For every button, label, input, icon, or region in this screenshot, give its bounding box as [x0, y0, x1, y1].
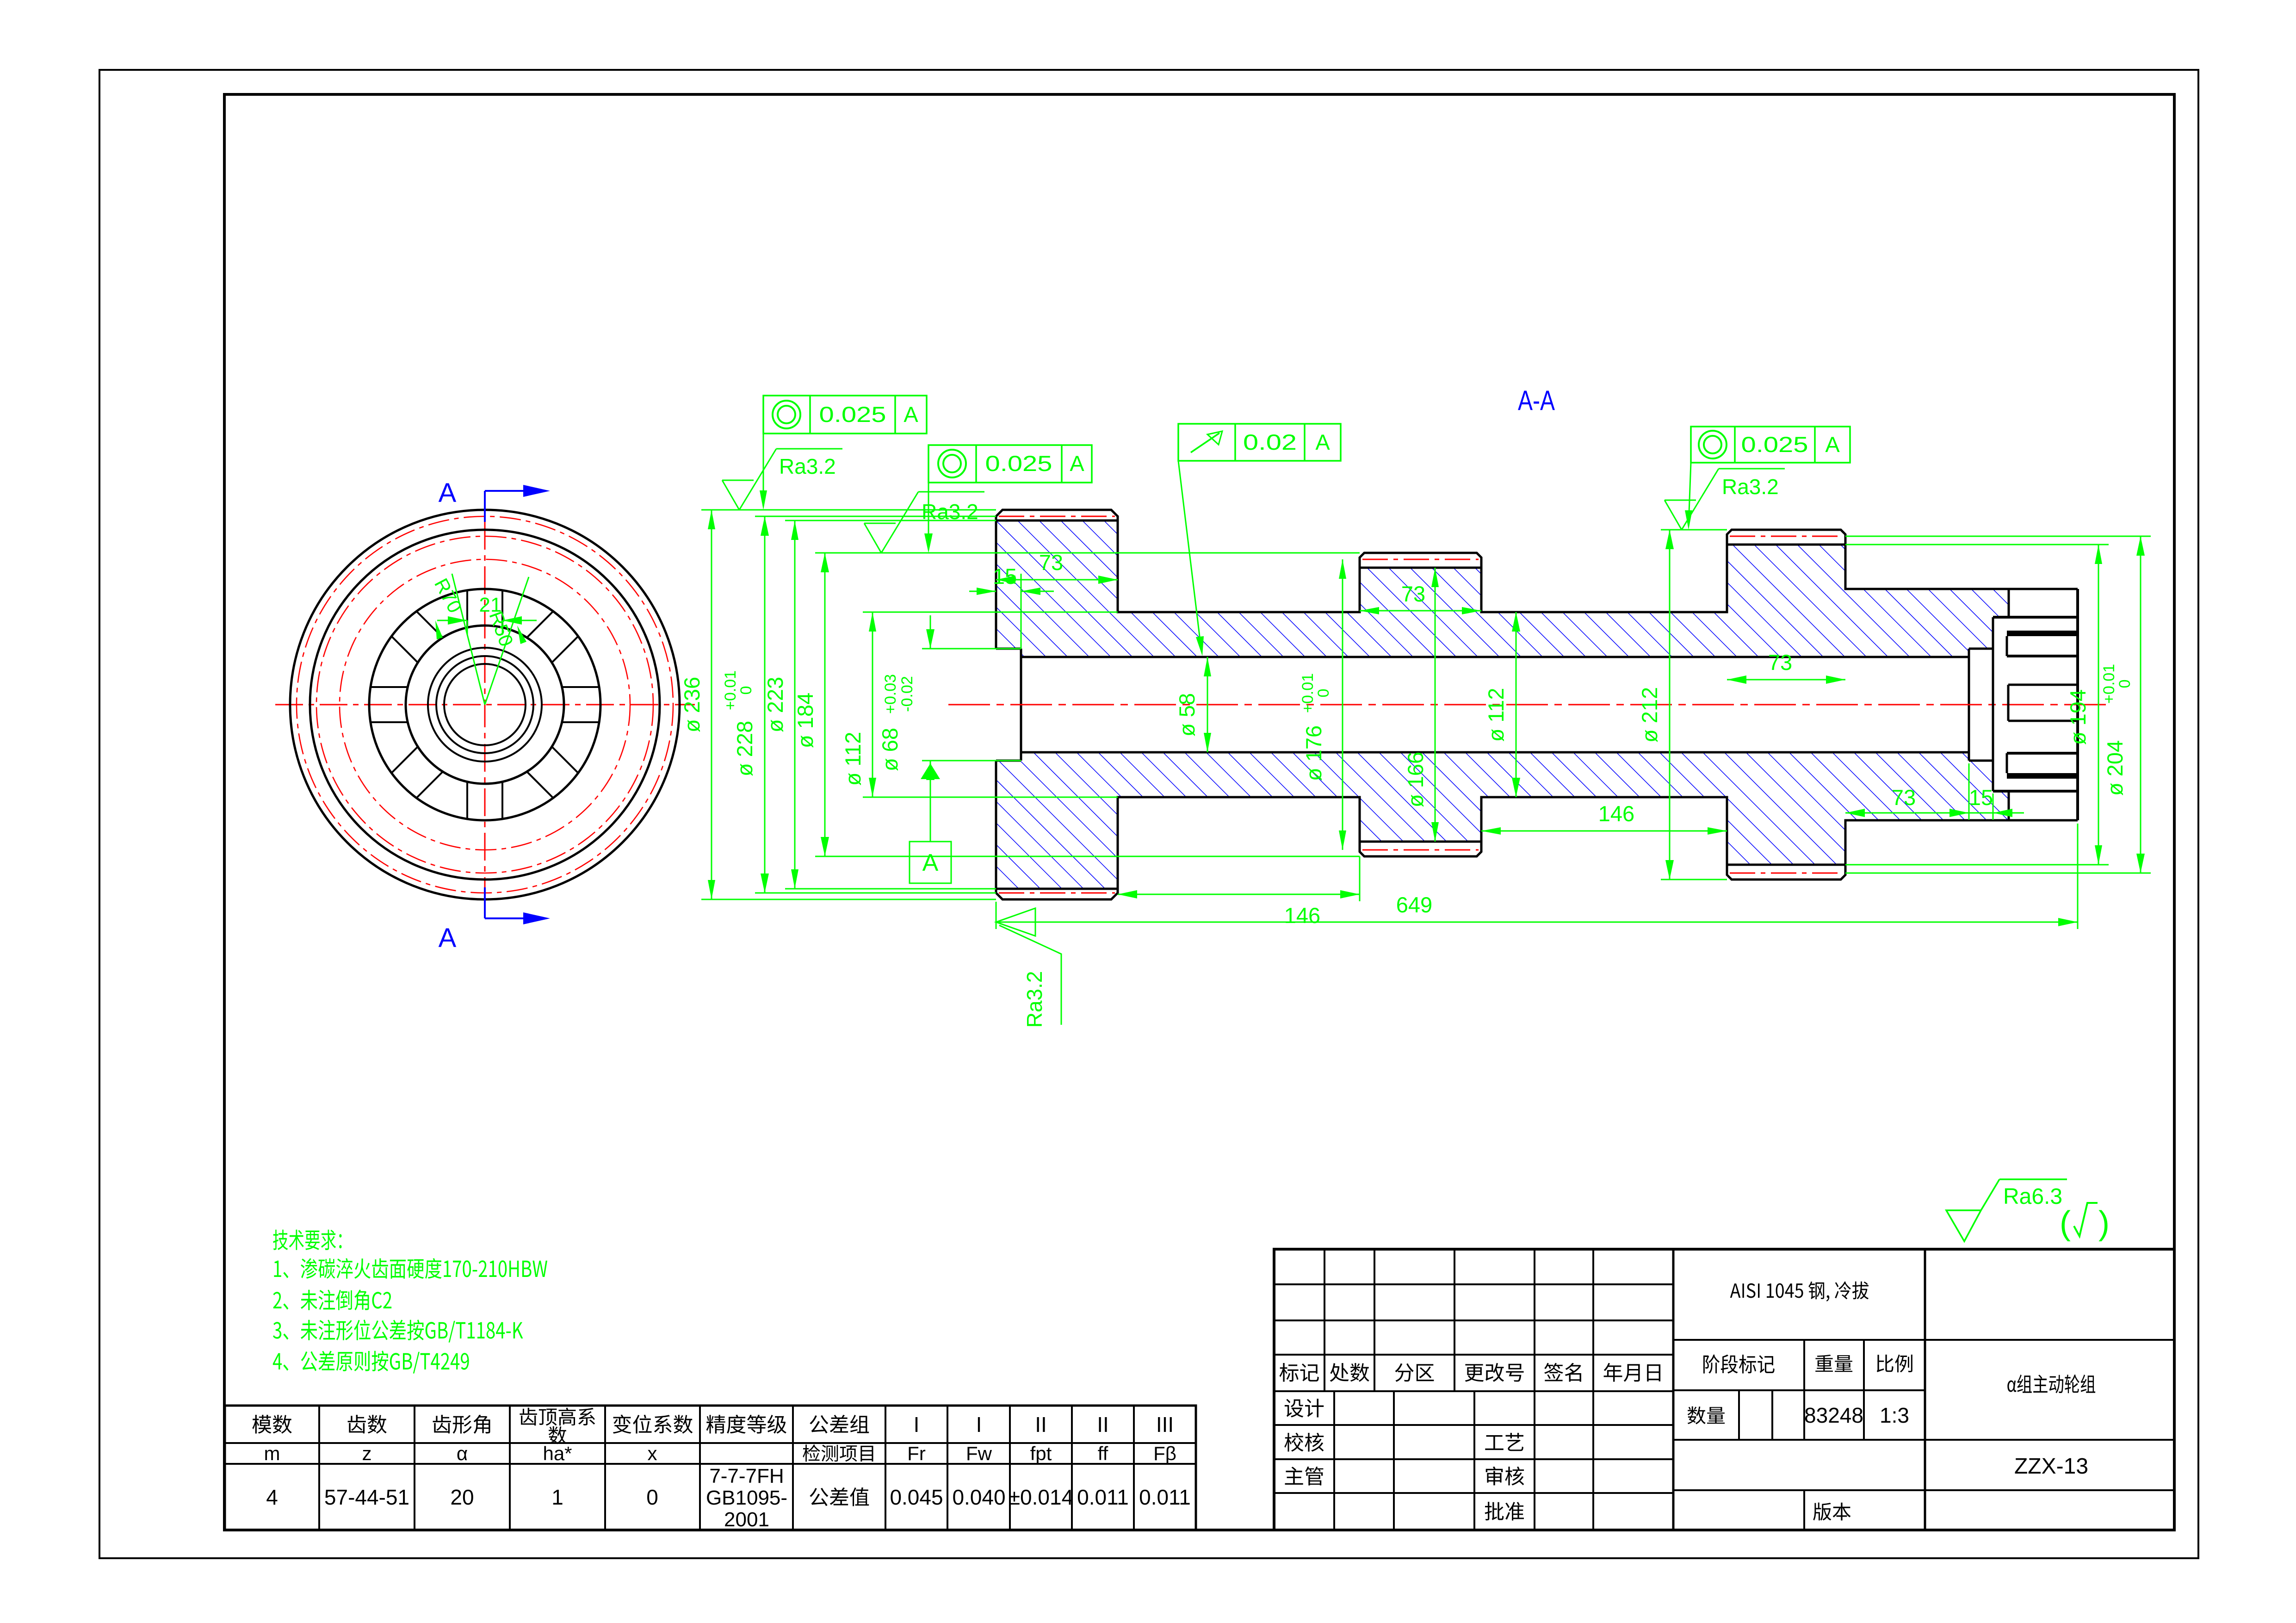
title label 标记: [1280, 1363, 1319, 1382]
shaft section hatching top: [996, 520, 2009, 657]
svg-text:57-44-51: 57-44-51: [324, 1485, 409, 1509]
ext line d194 bottom: [1845, 864, 2109, 866]
concentricity frame 2: [928, 445, 1092, 483]
svg-text:I: I: [914, 1412, 920, 1437]
svg-text:I: I: [976, 1412, 982, 1437]
shaft outer profile bottom: [996, 761, 2009, 899]
svg-text:2001: 2001: [724, 1508, 769, 1531]
svg-text:ø 112: ø 112: [841, 732, 865, 786]
svg-text:0.025: 0.025: [1741, 432, 1808, 457]
spline tooth4 left edge: [2008, 791, 2010, 820]
title col line lower: [1333, 1391, 1335, 1530]
svg-text:α: α: [457, 1443, 468, 1464]
hub circle d68: [428, 648, 542, 762]
dim 73 gear1 arrow left: [996, 576, 1015, 584]
svg-text:ø 212: ø 212: [1637, 687, 1662, 743]
dim d223: [794, 520, 796, 889]
svg-text:20: 20: [450, 1485, 474, 1509]
frame2 leader arrow: [924, 533, 933, 553]
title col line lower: [1534, 1391, 1535, 1530]
frame1 leader arrow: [760, 490, 767, 510]
dim d204 arrow top: [2136, 536, 2145, 556]
svg-text:ZZX-13: ZZX-13: [2014, 1454, 2088, 1479]
bearing roller side 1: [527, 611, 553, 638]
spline bottom edge: [2009, 819, 2078, 822]
spline line y1558: [2008, 720, 2078, 722]
dim d204 arrow bottom: [2136, 854, 2145, 873]
frame2 leader: [928, 483, 929, 548]
table column line: [1009, 1406, 1011, 1530]
ext line d68 top: [922, 648, 1021, 650]
spline thick band bottom: [2007, 773, 2078, 779]
dim d176 arrow top: [1339, 559, 1346, 579]
tech req 1: [274, 1258, 547, 1279]
svg-text:73: 73: [1768, 650, 1792, 675]
dim d228: [764, 516, 766, 893]
table header 变位系数: [613, 1415, 693, 1434]
gear1 pitch line bottom red: [999, 892, 1115, 894]
svg-text:ø 68: ø 68: [878, 728, 902, 771]
title row line: [1274, 1492, 1673, 1494]
svg-text:0.040: 0.040: [952, 1485, 1005, 1509]
part name 组主动轮组: [2007, 1375, 2095, 1394]
dim d166: [1435, 568, 1436, 842]
dim d223 arrow top: [791, 520, 798, 540]
bearing roller side 5b: [391, 747, 418, 773]
dim 146 first: [1118, 894, 1360, 895]
frame3 leader arrow: [1685, 510, 1692, 530]
svg-text:1:3: 1:3: [1880, 1403, 1909, 1427]
Ra6.3 triangle: [1946, 1210, 1981, 1241]
svg-text:0.045: 0.045: [890, 1485, 943, 1509]
dim d184 arrow bottom: [821, 837, 829, 856]
svg-text:m: m: [264, 1443, 280, 1464]
title col 重量 left: [1803, 1340, 1805, 1440]
ext line d112 bottom: [863, 797, 1118, 798]
pitch circle d204 red: [316, 536, 653, 873]
dim 15 arrow right: [1021, 588, 1040, 595]
table header 齿形角: [433, 1415, 490, 1434]
bore d58 bottom: [1021, 751, 1969, 754]
title label 处数: [1330, 1363, 1369, 1382]
right counterbore bottom: [1969, 760, 1993, 762]
dim 146 first arrow right: [1340, 890, 1360, 898]
svg-text:ø 176: ø 176: [1301, 725, 1326, 781]
dim d212 arrow bottom: [1665, 860, 1674, 880]
concentricity frame 3: [1691, 427, 1850, 463]
dim d236 arrow top: [708, 510, 715, 529]
bore circle d58: [436, 656, 533, 753]
title row line 版本 top: [1673, 1489, 1925, 1491]
dim 73 gear3 arrow left: [1727, 675, 1746, 684]
table header 数 cont: [549, 1426, 567, 1444]
table header 公差组: [810, 1415, 869, 1433]
svg-text:1: 1: [551, 1485, 563, 1509]
dim d58 arrow bottom: [1204, 733, 1211, 752]
dim 146 first arrow left: [1118, 890, 1137, 898]
svg-text:0.011: 0.011: [1139, 1485, 1191, 1509]
svg-text:x: x: [648, 1443, 657, 1464]
svg-text:z: z: [362, 1443, 372, 1464]
table column line: [1133, 1406, 1135, 1530]
front view horizontal centerline: [275, 704, 695, 706]
R70 arrow: [435, 620, 443, 639]
dim d236: [711, 510, 712, 899]
dim d68 upper leader: [930, 615, 931, 649]
svg-text:Ra3.2: Ra3.2: [779, 454, 836, 478]
bearing roller side 6: [501, 782, 503, 819]
dim d58: [1207, 657, 1208, 752]
title label 签名: [1544, 1363, 1581, 1382]
left counterbore bottom: [996, 760, 1021, 762]
dim 15 right leader: [1021, 591, 1054, 592]
gear2 pitch line top red: [1362, 559, 1479, 560]
title label 更改号: [1465, 1363, 1524, 1382]
ext line d204 bottom: [1845, 873, 2151, 874]
parameter table frame: [225, 1406, 1196, 1530]
spline line y1628: [2007, 752, 2078, 755]
section arrow bottom: [523, 912, 550, 924]
left counterbore wall: [1020, 649, 1022, 761]
title label 数量: [1688, 1406, 1725, 1425]
runout leader arrow: [1196, 636, 1204, 656]
dim d68 arrow top: [926, 629, 934, 649]
dim 649 arrow right: [2058, 918, 2078, 926]
svg-text:Ra3.2: Ra3.2: [1022, 971, 1046, 1028]
dim 73 gear3: [1727, 679, 1845, 681]
dim d112 right arrow top: [1512, 612, 1520, 632]
svg-text:A: A: [922, 849, 939, 876]
svg-text:ø 58: ø 58: [1175, 693, 1199, 737]
svg-text:ø 166: ø 166: [1403, 752, 1428, 807]
svg-text:0.011: 0.011: [1077, 1485, 1129, 1509]
21 ext tick right: [502, 620, 503, 635]
svg-text:7-7-7FH: 7-7-7FH: [709, 1465, 784, 1487]
title main divider: [1672, 1249, 1675, 1530]
bearing roller side 2b: [501, 590, 503, 627]
datum A triangle: [921, 763, 940, 779]
svg-text:0.02: 0.02: [1243, 430, 1297, 454]
gear2 pitch line bottom red: [1362, 849, 1479, 851]
gear3 root line top: [1727, 544, 1845, 546]
21 arrow right: [502, 616, 522, 625]
ext line d194 top: [1845, 544, 2109, 545]
73 right-end arrow left: [1845, 809, 1865, 817]
svg-text:146: 146: [1598, 801, 1634, 826]
bearing roller side 5: [416, 772, 443, 798]
dim d176: [1342, 559, 1343, 850]
shaft section hatching bottom: [996, 752, 2009, 889]
svg-text:A: A: [439, 923, 457, 953]
svg-text:ø 228: ø 228: [732, 721, 757, 776]
table column line: [1071, 1406, 1073, 1530]
dim 15 arrow left: [977, 588, 996, 595]
dim 73 gear2: [1360, 610, 1481, 612]
ext line d223 bottom: [785, 888, 996, 890]
dim d184: [824, 553, 826, 856]
title col line upper: [1534, 1249, 1535, 1391]
spline line y1710: [1993, 790, 2078, 793]
bearing roller side 4b: [371, 686, 408, 688]
front view vertical centerline: [484, 522, 486, 887]
title col line lower: [1592, 1391, 1594, 1530]
ext line d68 bottom: [922, 760, 1021, 762]
dim d236 arrow bottom: [708, 880, 715, 899]
ext line 15 counterbore: [1021, 574, 1022, 649]
section line top horizontal: [485, 490, 539, 492]
bearing roller side 4: [371, 721, 408, 723]
shaft outer profile top: [996, 510, 2009, 649]
svg-text:Ra3.2: Ra3.2: [922, 500, 978, 524]
title row line 数量 bottom: [1673, 1439, 1925, 1441]
Ra3.2 symbol 3 chord: [1665, 500, 1696, 501]
title row line 阶段标记 bottom: [1673, 1389, 1925, 1391]
dim d166 arrow bottom: [1431, 822, 1439, 842]
dim 649 line: [996, 922, 2078, 923]
svg-text:fpt: fpt: [1030, 1443, 1052, 1464]
left counterbore top: [996, 648, 1021, 650]
dim d194 arrow top: [2095, 545, 2102, 564]
svg-text:ø 204: ø 204: [2103, 740, 2127, 796]
svg-text:15: 15: [1969, 785, 1993, 810]
dim line 73/15 right end: [1845, 812, 2024, 814]
Ra3.2 symbol 3 left leg: [1665, 500, 1682, 530]
svg-text:A: A: [1070, 451, 1084, 476]
concentricity frame 1: [763, 396, 927, 434]
inner bore circle: [444, 664, 526, 745]
title col line upper: [1592, 1249, 1594, 1391]
bore d58 top: [1021, 656, 1969, 658]
R50 arrow: [517, 626, 526, 644]
dim d68 arrow bottom: [926, 761, 934, 780]
Ra6.3 bar: [1999, 1178, 2067, 1180]
table row3 公差值: [810, 1487, 869, 1506]
title 版本 cell left: [1803, 1490, 1805, 1530]
dim d184 arrow top: [821, 553, 829, 572]
dim d204: [2140, 536, 2141, 873]
649 big open arrow left: [996, 908, 1035, 936]
ext line d236 bottom: [701, 899, 996, 900]
bearing roller side 3: [391, 636, 418, 663]
title label 分区: [1395, 1363, 1434, 1382]
spline line y1480: [2008, 684, 2078, 686]
roller width dim line left: [437, 620, 467, 621]
title right cell line2: [1925, 1439, 2174, 1441]
Ra3.2 symbol 2 chord: [864, 523, 896, 524]
R50 leader: [485, 577, 529, 705]
dim d176 arrow bottom: [1339, 830, 1346, 850]
material AISI 1045: [1730, 1282, 1869, 1301]
section line top: [484, 491, 486, 522]
title row line: [1274, 1458, 1673, 1460]
svg-text:±0.014: ±0.014: [1009, 1485, 1073, 1509]
title col line upper: [1324, 1249, 1325, 1391]
svg-text:A-A: A-A: [1518, 385, 1555, 416]
ext line d212 top: [1661, 529, 1727, 531]
dim d112 left: [872, 612, 873, 797]
table row line: [225, 1442, 1196, 1444]
gear3 root line bottom: [1727, 864, 1845, 866]
title label 重量: [1815, 1355, 1852, 1372]
pitch circle d176 red: [340, 559, 630, 850]
Ra6.3 tail: [1981, 1179, 1999, 1210]
svg-text:ø 236: ø 236: [680, 677, 704, 732]
shaft centerline red: [948, 704, 2110, 706]
dim d223 arrow bottom: [791, 869, 798, 889]
svg-text:0: 0: [646, 1485, 658, 1509]
title AISI cell bottom: [1673, 1339, 1925, 1341]
svg-text:0.025: 0.025: [985, 451, 1052, 476]
table header 精度等级: [706, 1415, 786, 1434]
svg-text:A: A: [1315, 430, 1330, 454]
table column line: [947, 1406, 948, 1530]
svg-text:III: III: [1156, 1412, 1174, 1437]
21 arrow left: [448, 616, 467, 625]
bearing roller side 3b: [416, 611, 443, 638]
Ra3.2 symbol 2 left leg: [864, 523, 881, 553]
svg-text:21: 21: [479, 594, 502, 616]
dim d112 right arrow bottom: [1512, 778, 1520, 797]
spline top edge: [2009, 588, 2078, 590]
73 right-end arrow right: [1949, 809, 1969, 817]
svg-text:4: 4: [266, 1485, 278, 1509]
section line bottom: [484, 887, 486, 918]
title right cell line1: [1925, 1339, 2174, 1341]
table header 齿顶高系: [520, 1408, 595, 1426]
table column line: [604, 1406, 606, 1530]
svg-text:Fβ: Fβ: [1153, 1443, 1176, 1464]
ext line d184 top: [815, 552, 1360, 554]
title col line upper: [1374, 1249, 1375, 1391]
table row2 检测项目: [803, 1444, 873, 1462]
title label 批准: [1485, 1502, 1524, 1521]
ext line 146 first: [1359, 856, 1361, 901]
svg-text:+0.01: +0.01: [722, 670, 739, 710]
Ra3.2 symbol 1 top bar: [776, 448, 842, 450]
spline line y1418: [2007, 655, 2078, 657]
svg-text:-0.02: -0.02: [898, 676, 916, 712]
title col 比例 left: [1863, 1340, 1865, 1440]
gear3 pitch line top red: [1730, 536, 1843, 537]
table column line: [509, 1406, 511, 1530]
dim 73 gear3 arrow right: [1826, 675, 1845, 684]
svg-text:ø 194: ø 194: [2066, 689, 2090, 745]
svg-text:): ): [2098, 1205, 2110, 1242]
gear3 pitch line bottom red: [1730, 873, 1843, 874]
gear2 root line top: [1360, 567, 1481, 569]
bearing outer circle R70: [369, 589, 600, 820]
ext line d223 top: [785, 520, 996, 521]
tech req 4: [273, 1350, 469, 1373]
Ra3.2 bottom leader: [999, 925, 1061, 1025]
title label 主管: [1285, 1467, 1324, 1486]
title right divider: [1924, 1249, 1926, 1530]
dim d228 arrow bottom: [761, 873, 769, 893]
title row line: [1274, 1354, 1673, 1356]
roller width dim line right: [502, 620, 537, 621]
right counterbore top: [1969, 648, 1993, 650]
ext line 15 right end: [1993, 793, 1994, 820]
svg-text:Fr: Fr: [907, 1443, 926, 1464]
title label 年月日: [1604, 1363, 1661, 1382]
small check mark: [2074, 1203, 2098, 1236]
dim d212: [1669, 530, 1671, 880]
right counterbore wall: [1968, 649, 1970, 761]
dim 146 second arrow left: [1481, 827, 1501, 835]
svg-text:Fw: Fw: [966, 1443, 992, 1464]
title small col: [1771, 1390, 1773, 1440]
svg-text:0: 0: [1315, 689, 1332, 698]
title label 阶段标记: [1703, 1355, 1775, 1374]
frame1 leader: [763, 434, 764, 505]
spline tooth2 left edge: [2006, 636, 2008, 656]
svg-text:73: 73: [1039, 550, 1063, 575]
spline line y1334: [1993, 616, 2078, 619]
title label 设计: [1285, 1399, 1324, 1418]
ext line d112 top: [863, 612, 1118, 613]
svg-text:+0.01: +0.01: [1299, 673, 1317, 713]
spline tooth1 left edge: [2008, 589, 2010, 617]
bearing roller side 0b: [562, 721, 599, 723]
ext line d184 bottom: [815, 856, 1360, 857]
Ra3.2 symbol 1 chord: [722, 480, 754, 481]
tech req title: [273, 1230, 341, 1250]
dim d228 arrow top: [761, 516, 769, 536]
bearing inner circle R48: [406, 626, 564, 784]
dim 73 gear2 arrow right: [1462, 607, 1481, 614]
svg-text:ø 184: ø 184: [793, 693, 817, 748]
svg-text:ha*: ha*: [543, 1443, 572, 1464]
21 ext tick left: [467, 620, 468, 635]
title row line: [1274, 1390, 1673, 1392]
runout frame leader: [1178, 461, 1201, 651]
svg-text:Ra3.2: Ra3.2: [1722, 475, 1779, 499]
title col line lower: [1473, 1391, 1475, 1530]
title col line lower: [1393, 1391, 1395, 1530]
title 数量 cell right: [1738, 1390, 1740, 1440]
bearing roller side 6b: [466, 782, 468, 819]
gear1 pitch line top red: [999, 516, 1115, 517]
dim d112 right: [1516, 612, 1517, 797]
table column line: [885, 1406, 886, 1530]
title label 工艺: [1485, 1433, 1523, 1451]
table header 模数: [252, 1415, 291, 1434]
spline tooth3 left edge: [2006, 753, 2008, 773]
15 right-end arrow: [1993, 809, 2012, 817]
Ra3.2 symbol 3 top bar: [1719, 468, 1785, 470]
dim d166 arrow top: [1431, 568, 1439, 587]
dim 73 gear2 arrow left: [1360, 607, 1379, 614]
ext line d236 top: [701, 509, 996, 511]
section arrow top: [523, 485, 550, 497]
circle d212: [310, 530, 660, 880]
Ra3.2 symbol 3 long leg: [1682, 469, 1719, 530]
title row line: [1274, 1319, 1673, 1321]
svg-text:649: 649: [1396, 892, 1432, 917]
bearing roller side 2: [466, 590, 468, 627]
title row line: [1274, 1283, 1673, 1285]
dim 73 gear1: [996, 579, 1118, 581]
table column line: [414, 1406, 415, 1530]
dim d112 left arrow bottom: [869, 778, 876, 797]
datum A box: [910, 842, 951, 883]
Ra3.2 symbol 1 left leg: [722, 480, 739, 510]
dim d194 arrow bottom: [2095, 845, 2102, 865]
gear1 root line top: [996, 520, 1118, 522]
ext line 649 left: [996, 902, 997, 929]
ext line d204 top: [1845, 536, 2151, 537]
svg-text:+0.01: +0.01: [2100, 664, 2118, 704]
